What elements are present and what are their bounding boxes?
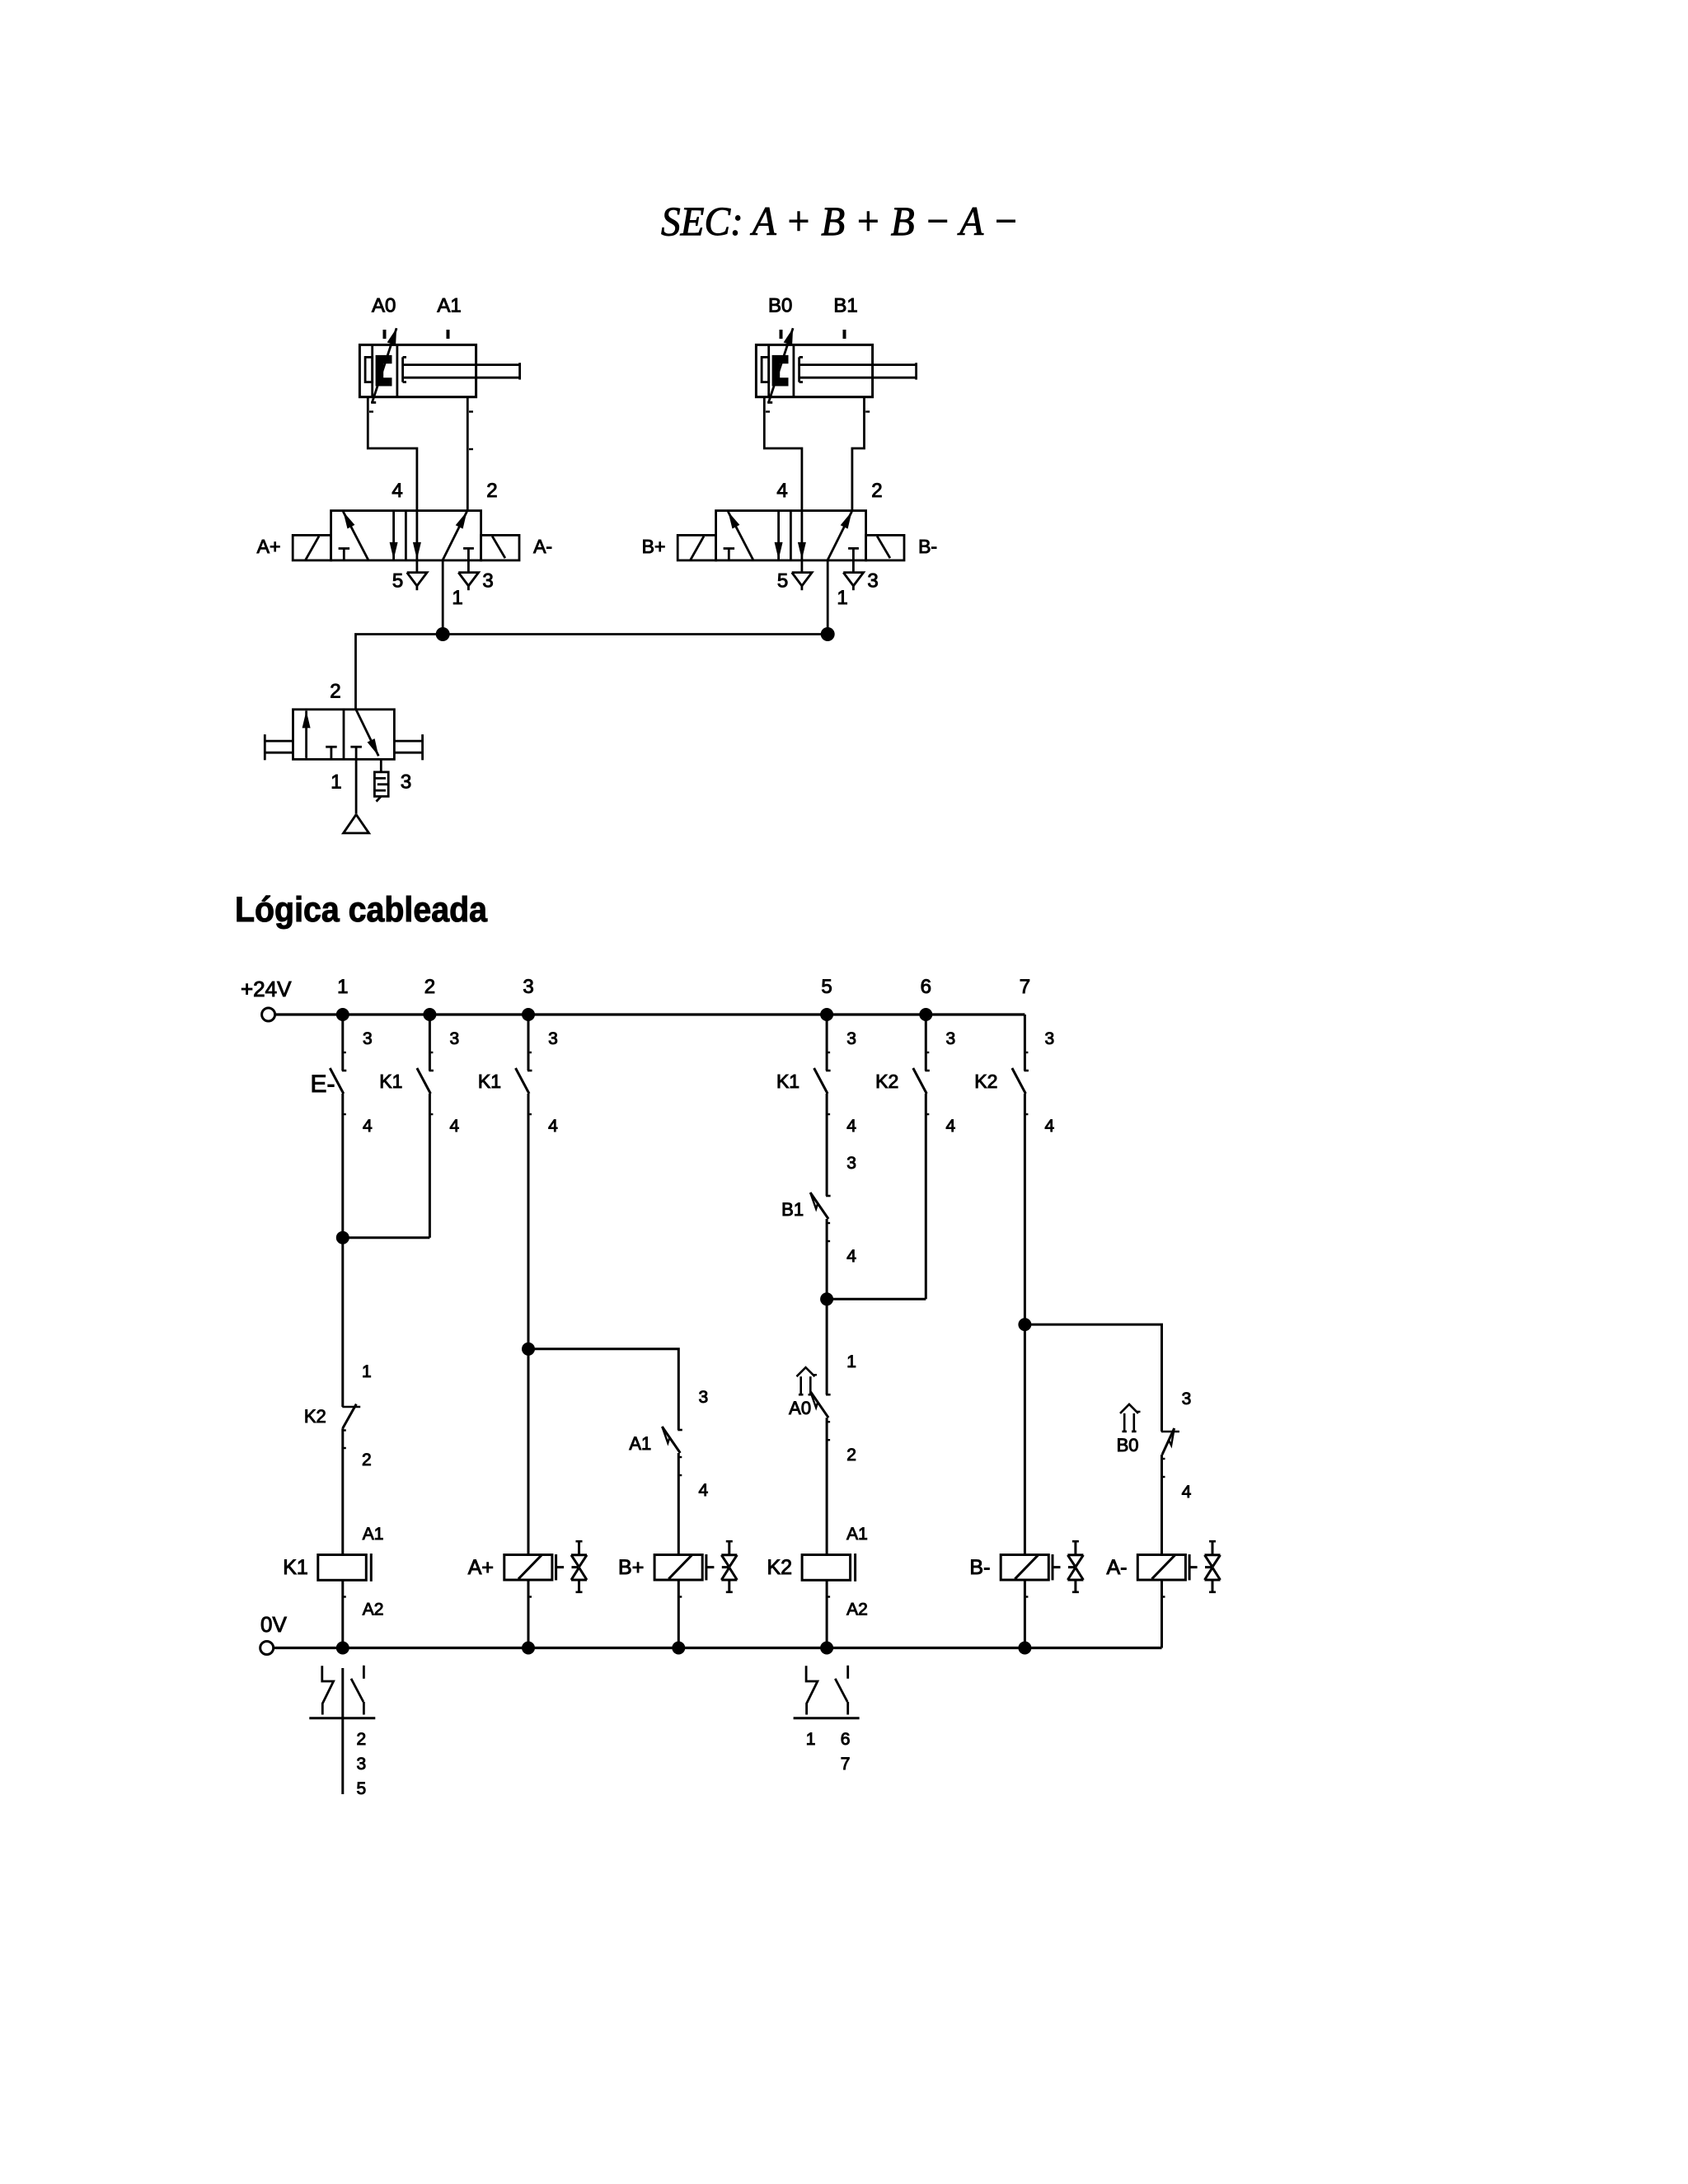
svg-text:2: 2 (356, 1730, 366, 1749)
svg-text:2: 2 (871, 480, 882, 502)
pipe cylinder B right port to valve B port 2 (852, 397, 865, 511)
relay contact K2 rung 7 (1024, 1052, 1028, 1053)
3/2 valve left detent actuator (265, 740, 293, 743)
svg-text:1: 1 (362, 1362, 372, 1381)
svg-text:3: 3 (846, 1029, 856, 1048)
wire rung 1 middle (341, 1094, 344, 1407)
svg-text:4: 4 (548, 1117, 558, 1136)
svg-text:7: 7 (841, 1755, 851, 1774)
svg-text:A-: A- (1107, 1556, 1128, 1579)
svg-text:1: 1 (452, 587, 462, 609)
junction node 0V rail (522, 1642, 535, 1655)
svg-text:A1: A1 (846, 1525, 868, 1544)
3/2 valve left position blocked port (326, 746, 337, 748)
cylinder A cushion seal (365, 357, 373, 382)
sensor position mark B1 (843, 330, 846, 339)
0V rail (274, 1647, 1162, 1649)
junction node 0V rail (1018, 1642, 1031, 1655)
wire rung 3 middle (527, 1094, 530, 1555)
svg-text:3: 3 (482, 570, 493, 593)
junction node rung 7 branch (1018, 1318, 1031, 1331)
svg-text:3: 3 (363, 1029, 373, 1048)
wire A1 to B+ coil (678, 1453, 680, 1555)
valve B exhaust 3 (852, 560, 855, 573)
svg-text:3: 3 (450, 1029, 460, 1048)
svg-text:Lógica cableada: Lógica cableada (235, 890, 488, 930)
svg-text:3: 3 (401, 771, 411, 794)
svg-text:K2: K2 (304, 1406, 326, 1427)
wire K2 coil to 0V rail (826, 1580, 828, 1647)
valve B left position flow 2-3 arrow (777, 511, 780, 560)
junction node rung 5/6 (820, 1292, 833, 1305)
svg-text:4: 4 (450, 1117, 460, 1136)
wire branch to A1 contact (528, 1349, 678, 1430)
wire B1 to junction (826, 1219, 828, 1394)
valve A exhaust 5 (415, 560, 418, 573)
svg-text:A+: A+ (257, 536, 281, 557)
3/2 hand valve body (293, 710, 395, 760)
valve A right position blocked port (463, 547, 474, 550)
svg-text:K1: K1 (776, 1071, 799, 1092)
relay K2 contact cross-reference (806, 1666, 818, 1714)
svg-text:2: 2 (330, 681, 340, 703)
wire rung 1 upper (341, 1015, 344, 1071)
valve solenoid coil A- (1137, 1555, 1185, 1581)
svg-text:0V: 0V (260, 1612, 287, 1637)
cylinder A piston plate (396, 344, 398, 396)
junction node rail column (919, 1008, 932, 1021)
valve solenoid coil B+ (654, 1555, 702, 1581)
svg-text:4: 4 (363, 1117, 373, 1136)
limit switch contact B1 (826, 1195, 831, 1197)
svg-text:2: 2 (424, 976, 435, 998)
svg-text:K2: K2 (767, 1556, 793, 1579)
svg-text:4: 4 (392, 480, 402, 502)
junction node rail column (522, 1008, 535, 1021)
3/2 valve right detent actuator (394, 740, 422, 743)
wire rung 1 lower (341, 1428, 344, 1554)
wire rung 5 upper (826, 1015, 828, 1071)
svg-text:B-: B- (918, 536, 937, 557)
air supply source (355, 759, 358, 813)
limit switch contact A1 (678, 1429, 682, 1432)
pipe cylinder A right port to valve A port 2 (467, 397, 469, 511)
wire rung 6 upper (925, 1015, 927, 1071)
svg-text:6: 6 (921, 976, 931, 998)
actuation arrow symbol (797, 1367, 815, 1376)
svg-text:K1: K1 (379, 1071, 402, 1092)
cylinder A actuation arrow (371, 401, 376, 404)
junction node rung 3 branch (522, 1343, 535, 1356)
suppressor valve symbol at B+ (726, 1540, 733, 1543)
wire A0 to K2 coil (826, 1418, 828, 1554)
solenoid A+ (293, 535, 331, 560)
svg-text:A1: A1 (629, 1433, 651, 1454)
3/2 valve left position flow arrow (305, 710, 307, 757)
suppressor valve symbol at A+ (576, 1540, 583, 1543)
valve B right position blocked port (848, 547, 859, 550)
svg-text:4: 4 (698, 1481, 708, 1500)
wire rung 6 to rung 5 (827, 1298, 926, 1301)
valve solenoid coil B- (1001, 1555, 1048, 1581)
wire rung 2 upper (429, 1015, 431, 1071)
wire valve A port 1 to supply line (442, 560, 444, 635)
wire rung 6 lower (925, 1094, 927, 1299)
svg-text:5: 5 (821, 976, 832, 998)
pipe cylinder A left port to valve A port 4 (368, 397, 417, 511)
svg-text:A2: A2 (363, 1601, 384, 1619)
svg-text:3: 3 (846, 1154, 856, 1173)
relay contact K1 rung 2 (429, 1052, 433, 1053)
svg-text:B-: B- (969, 1556, 990, 1579)
svg-text:2: 2 (486, 480, 497, 502)
3/2 valve right position flow 2-3 arrow (356, 710, 378, 756)
wire rung 2 to rung 1 (343, 1236, 430, 1239)
wire rung 3 upper (527, 1015, 530, 1071)
relay coil K2 (802, 1555, 851, 1581)
svg-text:3: 3 (548, 1029, 558, 1048)
svg-text:4: 4 (1045, 1117, 1055, 1136)
svg-text:3: 3 (523, 976, 533, 998)
junction node rail column (336, 1008, 349, 1021)
valve B exhaust 5 (801, 560, 804, 573)
actuation arrow symbol (1120, 1404, 1138, 1413)
junction node rail column (820, 1008, 833, 1021)
junction node 0V rail (672, 1642, 685, 1655)
solenoid B+ (678, 535, 715, 560)
svg-text:+24V: +24V (241, 977, 292, 1001)
cylinder B actuation arrow (767, 401, 772, 404)
valve B left position blocked port (724, 547, 735, 550)
relay contact K2 rung 6 (925, 1052, 929, 1053)
wire B0 to A- coil (1160, 1455, 1163, 1555)
cylinder B piston plate (793, 344, 795, 396)
svg-text:1: 1 (337, 976, 348, 998)
valve A left position flow 2-3 arrow (392, 511, 395, 560)
junction node 0V rail (336, 1642, 349, 1655)
limit switch contact A0 (826, 1394, 831, 1396)
junction node at valve B port 1 (821, 627, 835, 641)
junction node rung1/rung2 (336, 1231, 349, 1244)
junction node at valve A port 1 (436, 627, 450, 641)
valve B right position flow 1-2 arrow (828, 512, 851, 560)
relay K1 contact cross-reference (341, 1668, 344, 1794)
svg-text:A0: A0 (372, 295, 396, 317)
svg-text:4: 4 (846, 1117, 856, 1136)
3/2 valve right position blocked port 1 (350, 746, 362, 748)
svg-text:2: 2 (362, 1451, 372, 1469)
supply line from 3/2 valve (356, 635, 828, 710)
sensor position mark A1 (447, 330, 450, 339)
svg-text:A2: A2 (846, 1601, 868, 1619)
svg-text:3: 3 (1045, 1029, 1055, 1048)
5/2 valve B body (716, 511, 866, 560)
svg-text:5: 5 (777, 570, 788, 593)
cylinder B body (756, 344, 872, 396)
pushbutton contact E- (342, 1052, 346, 1053)
valve A left position blocked port (339, 547, 350, 550)
relay contact K1 rung 3 (527, 1052, 532, 1053)
svg-text:1: 1 (846, 1352, 856, 1371)
pipe cylinder B left port to valve B port 4 (764, 397, 802, 511)
wire rung 2 lower (429, 1094, 431, 1238)
solenoid B- (866, 535, 904, 560)
+24V rail (275, 1013, 1025, 1015)
svg-text:A1: A1 (437, 295, 461, 317)
muffler on port 3 (380, 759, 382, 772)
svg-text:B1: B1 (833, 295, 857, 317)
svg-text:B0: B0 (1117, 1435, 1139, 1455)
suppressor valve symbol at B- (1072, 1540, 1079, 1543)
svg-text:4: 4 (846, 1247, 856, 1266)
junction node 0V rail (820, 1642, 833, 1655)
svg-text:B0: B0 (768, 295, 792, 317)
svg-text:A-: A- (533, 536, 552, 557)
svg-text:K1: K1 (478, 1071, 501, 1092)
svg-text:B1: B1 (781, 1199, 804, 1220)
wire valve B port 1 to supply line (827, 560, 829, 635)
svg-text:K2: K2 (875, 1071, 898, 1092)
junction node rail column (423, 1008, 436, 1021)
valve B right position flow 4-5 arrow (801, 511, 804, 560)
limit switch contact B0 (1161, 1431, 1179, 1433)
5/2 valve A body (331, 511, 481, 560)
svg-text:4: 4 (1182, 1483, 1192, 1502)
valve A right position flow 4-5 arrow (415, 511, 418, 560)
cylinder A body (359, 344, 476, 396)
svg-text:4: 4 (776, 480, 787, 502)
wire rung 7 middle (1024, 1094, 1026, 1555)
svg-text:K1: K1 (283, 1556, 308, 1579)
wire branch to B0 contact (1025, 1324, 1161, 1432)
wire K1 coil to 0V rail (341, 1580, 344, 1647)
svg-text:B+: B+ (642, 536, 666, 557)
svg-text:7: 7 (1020, 976, 1030, 998)
svg-text:2: 2 (846, 1446, 856, 1465)
svg-text:3: 3 (1182, 1390, 1192, 1408)
svg-text:K2: K2 (974, 1071, 997, 1092)
svg-text:5: 5 (356, 1779, 366, 1798)
svg-text:3: 3 (698, 1388, 708, 1407)
wire B+ coil to 0V rail (678, 1580, 680, 1647)
svg-text:3: 3 (356, 1755, 366, 1774)
svg-text:SEC: A + B + B − A −: SEC: A + B + B − A − (661, 198, 1019, 244)
valve A right position flow 1-2 arrow (443, 512, 467, 560)
valve A left position flow 1-4 arrow (343, 512, 368, 560)
wire rung 5 to B1 (826, 1094, 828, 1196)
relay coil K1 (318, 1555, 367, 1581)
cylinder B cushion seal (762, 357, 769, 382)
relay contact K2 NC (342, 1406, 360, 1408)
wire A- coil to 0V rail (1160, 1580, 1163, 1647)
0V supply terminal (260, 1642, 274, 1655)
relay contact K1 rung 5 (826, 1052, 830, 1053)
valve solenoid coil A+ (504, 1555, 552, 1581)
svg-text:1: 1 (806, 1730, 816, 1749)
svg-text:5: 5 (392, 570, 403, 593)
svg-text:6: 6 (841, 1730, 851, 1749)
wire B- coil to 0V rail (1024, 1580, 1026, 1647)
svg-text:A1: A1 (363, 1525, 384, 1544)
sensor position mark B0 (780, 330, 783, 339)
wire A+ coil to 0V rail (527, 1580, 530, 1647)
svg-text:A0: A0 (789, 1398, 811, 1418)
+24V supply terminal (262, 1008, 275, 1021)
solenoid A- (481, 535, 519, 560)
cylinder B piston rod (800, 363, 917, 366)
valve A exhaust 3 (467, 560, 470, 573)
wire rung 7 upper (1024, 1015, 1026, 1071)
cylinder A piston rod (404, 363, 520, 366)
cylinder B magnetic piston (772, 355, 789, 387)
svg-text:B+: B+ (618, 1556, 644, 1579)
cylinder A magnetic piston (376, 355, 392, 387)
svg-text:3: 3 (867, 570, 878, 593)
svg-text:1: 1 (331, 771, 341, 794)
sensor position mark A0 (383, 330, 387, 339)
svg-text:A+: A+ (468, 1556, 494, 1579)
valve B left position flow 1-4 arrow (728, 512, 753, 560)
svg-text:4: 4 (945, 1117, 955, 1136)
svg-text:3: 3 (945, 1029, 955, 1048)
suppressor valve symbol at A- (1209, 1540, 1216, 1543)
svg-text:E-: E- (311, 1071, 335, 1098)
svg-text:1: 1 (837, 587, 847, 609)
